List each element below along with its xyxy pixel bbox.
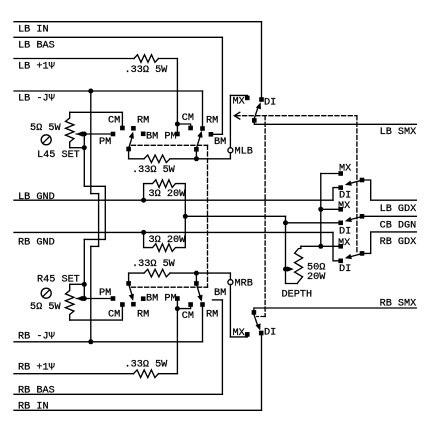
pole unit2 xyxy=(360,214,365,219)
svg-text:CM: CM xyxy=(108,310,120,321)
wire pole2' to rail2 xyxy=(195,273,197,283)
node junction MX bus / MX2 xyxy=(318,207,323,212)
svg-text:RM: RM xyxy=(137,115,149,126)
wire MX bus to MX1 xyxy=(321,173,339,175)
label CM (sel2 top) xyxy=(182,113,194,124)
svg-text:DI: DI xyxy=(264,328,276,339)
pole sel2 top xyxy=(194,147,199,152)
svg-text:DI: DI xyxy=(339,226,351,237)
svg-text:CB DGN: CB DGN xyxy=(380,221,417,232)
svg-text:20W: 20W xyxy=(307,272,326,283)
contact MX top xyxy=(245,96,250,101)
contact DI2 xyxy=(338,221,343,226)
svg-text:LB GND: LB GND xyxy=(18,192,55,203)
resistor .33ohm 5W (rail1) xyxy=(144,155,170,163)
wire RB +1 bus right xyxy=(159,373,178,375)
wire LB GND bus xyxy=(14,199,333,201)
linkage dashed drop center xyxy=(264,116,266,317)
trimmer symbol circle-slash (bottom) xyxy=(41,288,51,298)
wire rail2 left xyxy=(129,272,144,274)
wire MRB to MX tick xyxy=(229,285,231,337)
wire unit1 out xyxy=(362,180,416,200)
node junction RB +1 / CM2' feed xyxy=(175,306,180,311)
wire LB +1 drop xyxy=(176,59,178,135)
wire RB -J bus xyxy=(14,341,203,343)
svg-text:.33Ω 5W: .33Ω 5W xyxy=(132,165,176,176)
wire B jog upper xyxy=(91,193,99,195)
svg-text:RB -JΨ: RB -JΨ xyxy=(18,331,55,342)
svg-text:MRB: MRB xyxy=(235,279,253,290)
switch arm sel2 top xyxy=(196,131,202,149)
contact BM2 xyxy=(209,132,214,137)
node junction L45 bottom xyxy=(82,145,87,150)
contact CM2 lower xyxy=(188,302,193,307)
node junction R45 top xyxy=(82,282,87,287)
wire A jog upper xyxy=(84,185,105,187)
svg-text:RB SMX: RB SMX xyxy=(380,298,417,309)
wire MX bus to MX3 xyxy=(321,245,339,247)
terminal MLB xyxy=(228,148,233,153)
wire RB -J rise to RM2' xyxy=(202,306,204,341)
label LB IN xyxy=(18,25,49,36)
contact PM1 xyxy=(111,132,116,137)
label LB +1 xyxy=(18,62,55,73)
contact BM1 xyxy=(141,132,146,137)
label 5ohm 5W (bottom) xyxy=(30,302,61,313)
resistor .33ohm 5W (LB +1 line) xyxy=(134,55,159,63)
node junction MX bus / DEPTH xyxy=(318,244,323,249)
label MX (top switch) xyxy=(233,96,245,107)
wire LB +1 bus right xyxy=(159,58,178,60)
svg-text:PM: PM xyxy=(99,288,111,299)
svg-text:3Ω 20W: 3Ω 20W xyxy=(149,189,187,200)
rheostat L45 body xyxy=(66,112,74,147)
pole sel2 bottom xyxy=(194,281,199,286)
wire A lower segment xyxy=(83,239,85,284)
node junction DI2 feed xyxy=(283,220,288,225)
node junction wiper R45 xyxy=(82,296,87,301)
wire RB IN rise to DI contact xyxy=(261,335,263,411)
switch arm sel1 top xyxy=(129,132,134,149)
svg-text:LB +1Ψ: LB +1Ψ xyxy=(18,62,55,73)
node junction RB -J / crossover wire B xyxy=(88,339,93,344)
pole DI/MX bottom xyxy=(252,310,257,315)
node junction 3ohm/RB GND xyxy=(141,230,146,235)
label MX (unit1) xyxy=(339,163,351,174)
label LB GDX xyxy=(380,204,417,215)
wire LB IN bus xyxy=(14,21,262,23)
resistor 3ohm 20W (LB) xyxy=(144,180,186,217)
wire unit2 out xyxy=(362,215,416,217)
wire MX tick (bottom) xyxy=(230,336,247,338)
label MX (bottom switch) xyxy=(233,328,245,339)
switch arm DI/MX bottom xyxy=(254,314,261,330)
contact RM1 lower xyxy=(131,302,136,307)
svg-text:RB GDX: RB GDX xyxy=(380,237,417,248)
rheostat DEPTH body xyxy=(295,246,303,283)
label CM (sel1 bottom) xyxy=(108,310,120,321)
wire RB +1 rise xyxy=(176,299,178,374)
svg-text:3Ω 20W: 3Ω 20W xyxy=(149,235,187,246)
svg-text:MX: MX xyxy=(338,201,350,212)
wire rail1 to MLB xyxy=(229,153,231,159)
wire pole to RB SMX xyxy=(254,308,416,312)
node junction 3ohm/LB GND xyxy=(141,198,146,203)
svg-text:RB BAS: RB BAS xyxy=(18,385,55,396)
wire B lower segment xyxy=(90,246,92,341)
linkage dashed drop xyxy=(207,145,209,287)
svg-text:RB +1Ψ: RB +1Ψ xyxy=(18,362,55,373)
linkage dashed (bottom selectors) xyxy=(132,286,208,288)
switch arm DI/MX top xyxy=(254,102,261,118)
rheostat R45 body xyxy=(66,284,74,320)
pole unit1 xyxy=(360,178,365,183)
label 3ohm 20W (LB) xyxy=(149,189,187,200)
wire DI1 bracket xyxy=(333,188,339,201)
label MLB xyxy=(235,147,253,158)
label RM (sel2 bottom) xyxy=(206,310,218,321)
contact RM2 lower xyxy=(200,302,205,307)
switch arm unit2 xyxy=(345,217,361,222)
wire CB drop xyxy=(285,216,287,269)
wire rail2 right xyxy=(170,272,230,274)
label 50ohm xyxy=(307,262,325,273)
svg-text:MX: MX xyxy=(233,96,245,107)
label DEPTH xyxy=(282,289,313,300)
label R45 SET xyxy=(37,275,80,286)
svg-text:DI: DI xyxy=(339,190,351,201)
contact PM2 xyxy=(175,132,180,137)
node junction LB +1 / CM2 feed xyxy=(175,122,180,127)
svg-text:CM: CM xyxy=(108,115,120,126)
svg-text:RM: RM xyxy=(206,115,218,126)
label MX (unit3) xyxy=(338,238,350,249)
label RB +1 xyxy=(18,362,55,373)
label MX (unit2) xyxy=(338,201,350,212)
wire B jog lower xyxy=(91,245,99,247)
wiper arrow DEPTH xyxy=(287,266,294,271)
trimmer symbol circle-slash (top) xyxy=(41,135,51,145)
contact MX1 xyxy=(338,171,343,176)
linkage dashed (top DI/MX) xyxy=(236,115,357,117)
wire RB IN bus xyxy=(14,409,262,411)
label 3ohm 20W (RB) xyxy=(149,235,187,246)
wire CM2' bracket xyxy=(177,307,190,309)
switch arm sel1 bottom xyxy=(129,284,134,301)
svg-text:MLB: MLB xyxy=(235,147,253,158)
wire pole1' to rail2 xyxy=(128,273,130,283)
label BM PM (top row) xyxy=(146,131,177,142)
label DI (bottom switch) xyxy=(264,328,276,339)
svg-text:LB GDX: LB GDX xyxy=(380,204,417,215)
wire R45 top lead xyxy=(70,283,85,285)
linkage dashed (top selectors) xyxy=(132,144,208,146)
wire pole to LB SMX xyxy=(254,120,416,124)
wire LB +1 bus left xyxy=(14,58,134,60)
wire MX bus vertical xyxy=(320,174,322,247)
linkage arrow (top) xyxy=(234,112,240,119)
resistor .33ohm 5W (rail2) xyxy=(144,269,170,277)
svg-text:.33Ω 5W: .33Ω 5W xyxy=(125,65,169,76)
wire pole2 to rail xyxy=(195,149,197,159)
wire DEPTH top xyxy=(301,245,321,247)
svg-text:.33Ω 5W: .33Ω 5W xyxy=(132,259,176,270)
wire rail1 left xyxy=(129,158,144,160)
wire RB +1 bus left xyxy=(14,373,134,375)
contact MX bottom xyxy=(245,332,250,337)
label MRB xyxy=(235,279,253,290)
svg-text:MX: MX xyxy=(233,328,245,339)
svg-text:RM: RM xyxy=(137,310,149,321)
label LB BAS xyxy=(18,40,55,51)
label BM PM (bottom row) xyxy=(146,294,177,305)
label DI (unit1) xyxy=(339,190,351,201)
svg-text:BM PM: BM PM xyxy=(146,294,177,305)
pole sel1 bottom xyxy=(126,281,131,286)
svg-text:5Ω 5W: 5Ω 5W xyxy=(30,302,61,313)
contact RM2 xyxy=(200,126,205,131)
wire R45 bottom lead to CM1' xyxy=(70,306,123,320)
label .33ohm 5W (rail1) xyxy=(132,165,176,176)
label 20W xyxy=(307,272,326,283)
wire L45 bottom lead xyxy=(70,147,85,149)
wire RB BAS rise xyxy=(221,300,223,394)
contact PM1 lower xyxy=(111,296,116,301)
svg-text:DI: DI xyxy=(264,97,276,108)
svg-text:RB GND: RB GND xyxy=(18,237,55,248)
label RB -J xyxy=(18,331,55,342)
label RM (sel2 top) xyxy=(206,115,218,126)
contact DI1 xyxy=(338,185,343,190)
pole sel1 top xyxy=(126,147,131,152)
wire unit3 out xyxy=(362,232,416,254)
wire LB -J bus xyxy=(14,90,203,92)
svg-text:LB SMX: LB SMX xyxy=(380,127,417,138)
linkage dashed to bottom arm xyxy=(257,316,265,318)
linkage dashed drop to right column xyxy=(356,116,358,253)
label RB BAS xyxy=(18,385,55,396)
label L45 SET xyxy=(37,150,80,161)
svg-text:RM: RM xyxy=(206,310,218,321)
wire to DI2 xyxy=(286,222,339,224)
node junction bridge midpoint xyxy=(183,214,188,219)
wire pole1 to rail xyxy=(128,149,130,159)
wire DEPTH bottom xyxy=(286,269,298,283)
contact CM1 xyxy=(120,126,125,131)
wire rail2 to MRB xyxy=(229,273,231,280)
label LB GND xyxy=(18,192,55,203)
contact CM2 xyxy=(188,126,193,131)
label PM (sel1 bottom) xyxy=(99,288,111,299)
label BM (sel2 bottom) xyxy=(214,288,226,299)
svg-text:5Ω 5W: 5Ω 5W xyxy=(30,123,61,134)
wire R45 wiper to PM1' xyxy=(76,298,111,300)
label RM (sel1 top) xyxy=(137,115,149,126)
svg-text:BM PM: BM PM xyxy=(146,131,177,142)
contact RM1 xyxy=(131,126,136,131)
wire MLB to MX tick xyxy=(229,95,231,147)
resistor .33ohm 5W (RB +1 line) xyxy=(134,370,159,378)
wire LB -J drop to RM2 xyxy=(202,91,204,127)
label CM (sel2 bottom) xyxy=(182,311,194,322)
wire LB IN drop to DI contact xyxy=(261,22,263,98)
wire B middle segment xyxy=(98,194,100,247)
label CM (sel1 top) xyxy=(108,115,120,126)
svg-text:.33Ω 5W: .33Ω 5W xyxy=(125,359,169,370)
switch arm sel2 bottom xyxy=(196,284,202,302)
label .33ohm 5W (bottom) xyxy=(125,359,169,370)
svg-text:PM: PM xyxy=(99,137,111,148)
wire CM2 bracket xyxy=(177,124,190,126)
resistor 3ohm 20W (RB) xyxy=(144,216,186,251)
svg-text:MX: MX xyxy=(339,163,351,174)
wire MX bus to MX2 xyxy=(321,208,339,210)
label CB DGN xyxy=(380,221,417,232)
svg-text:LB -JΨ: LB -JΨ xyxy=(18,94,55,105)
node junction wiper xyxy=(82,132,87,137)
contact BM1 lower xyxy=(141,296,146,301)
wire LB BAS bus xyxy=(14,36,222,38)
node junction rail1/pole2 xyxy=(194,156,199,161)
node junction LB -J / crossover wire B xyxy=(88,89,93,94)
contact DI3 xyxy=(338,259,343,264)
wire RB GND bus xyxy=(14,231,333,233)
wire bridge mid to CB drop xyxy=(185,215,285,217)
label RM (sel1 bottom) xyxy=(137,310,149,321)
label RB SMX xyxy=(380,298,417,309)
contact MX2 xyxy=(338,207,343,212)
svg-text:DI: DI xyxy=(339,264,351,275)
label RB GDX xyxy=(380,237,417,248)
wire wiper tie-down xyxy=(83,134,85,148)
label RB IN xyxy=(18,401,49,412)
wiper arrow R45 xyxy=(76,296,83,301)
svg-text:LB IN: LB IN xyxy=(18,25,49,36)
wire LB BAS to BM2 contact xyxy=(213,133,223,135)
wire DI3 bracket xyxy=(333,232,339,260)
wire DEPTH wiper xyxy=(286,268,288,270)
label 5ohm 5W (top) xyxy=(30,123,61,134)
wiper arrow L45 xyxy=(76,131,83,136)
svg-text:CM: CM xyxy=(182,113,194,124)
wire L45 top lead to CM1 xyxy=(70,112,123,126)
svg-text:BM: BM xyxy=(214,137,226,148)
pole DI/MX top xyxy=(252,118,257,123)
contact MX3 xyxy=(338,244,343,249)
svg-text:RB IN: RB IN xyxy=(18,401,49,412)
label .33ohm 5W (rail2) xyxy=(132,259,176,270)
label PM (sel1 top) xyxy=(99,137,111,148)
svg-text:L45 SET: L45 SET xyxy=(37,150,80,161)
node junction DEPTH wiper xyxy=(283,267,288,272)
label LB SMX xyxy=(380,127,417,138)
label DI (unit2) xyxy=(339,226,351,237)
label LB -J xyxy=(18,94,55,105)
svg-text:CM: CM xyxy=(182,311,194,322)
label .33ohm 5W (top) xyxy=(125,65,169,76)
wire L45 wiper to PM1 xyxy=(76,133,111,135)
node junction rail2/pole2 xyxy=(194,271,199,276)
terminal MRB xyxy=(228,280,233,285)
wire wiper tie-up xyxy=(83,284,85,298)
svg-text:MX: MX xyxy=(338,238,350,249)
contact DI top xyxy=(259,97,264,102)
wire RB BAS to BM2' contact xyxy=(213,299,223,301)
label DI (unit3) xyxy=(339,264,351,275)
svg-text:DEPTH: DEPTH xyxy=(282,289,313,300)
wire MX tick (top) xyxy=(230,94,247,96)
svg-text:LB BAS: LB BAS xyxy=(18,40,55,51)
contact DI bottom xyxy=(259,331,264,336)
wire B upper segment xyxy=(90,91,92,194)
pole unit3 xyxy=(360,251,365,256)
wire A middle segment xyxy=(104,186,106,239)
label RB GND xyxy=(18,237,55,248)
wire A jog lower xyxy=(84,238,105,240)
wire RB BAS bus xyxy=(14,393,222,395)
contact PM2 lower xyxy=(175,296,180,301)
wire LB BAS drop xyxy=(221,37,223,134)
wire A upper segment xyxy=(83,148,85,187)
contact CM1 lower xyxy=(120,302,125,307)
wire rail1 right xyxy=(170,158,230,160)
label DI (top switch) xyxy=(264,97,276,108)
switch arm unit1 xyxy=(345,181,361,186)
switch arm unit3 xyxy=(345,254,361,259)
svg-text:BM: BM xyxy=(214,288,226,299)
label BM (sel2 top) xyxy=(214,137,226,148)
